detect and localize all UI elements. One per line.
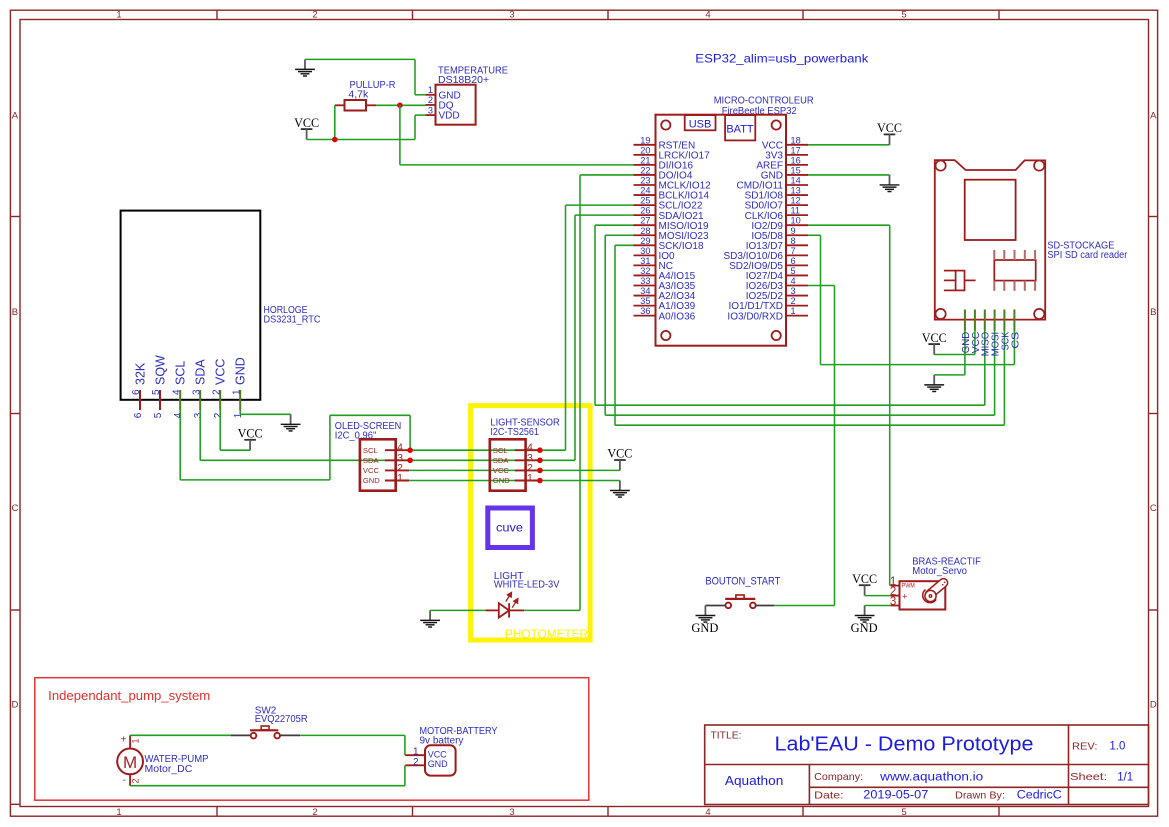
svg-text:cuve: cuve: [496, 522, 523, 534]
svg-text:GND: GND: [851, 620, 878, 635]
RTC clock U DS3231 (HORLOGE): [121, 211, 261, 400]
svg-text:Motor_Servo: Motor_Servo: [912, 565, 967, 577]
wire: [399, 105, 401, 165]
svg-text:1: 1: [428, 85, 433, 95]
push-button SW BOUTON_START: [725, 598, 755, 600]
svg-text:VCC: VCC: [238, 426, 263, 441]
wire OLED GND bus: [409, 480, 620, 482]
svg-text:5: 5: [901, 807, 906, 818]
micro-controller U FireBeetle ESP32: [656, 115, 787, 346]
wire pin4 IO26/D3 to button: [808, 285, 835, 287]
svg-text:21: 21: [640, 155, 650, 165]
svg-text:36: 36: [640, 306, 650, 316]
svg-text:BOUTON_START: BOUTON_START: [705, 576, 780, 588]
SD module pins: [964, 310, 966, 331]
svg-text:25: 25: [640, 196, 650, 206]
wire RTC SDA bus: [199, 410, 201, 460]
svg-text:18: 18: [791, 135, 801, 145]
svg-text:23: 23: [640, 176, 650, 186]
svg-text:9: 9: [791, 226, 796, 236]
LED D white-led-3v: [486, 609, 499, 611]
wire: [300, 734, 405, 736]
svg-text:DS3231_RTC: DS3231_RTC: [264, 314, 321, 326]
title block: [705, 725, 1149, 805]
wire: [430, 609, 486, 611]
junction LS row: [537, 468, 543, 474]
svg-text:34: 34: [640, 286, 650, 296]
svg-text:4: 4: [705, 807, 710, 818]
svg-text:VCC: VCC: [493, 466, 510, 475]
wire pin15 GND: [808, 174, 890, 176]
svg-text:BATT: BATT: [726, 123, 754, 135]
svg-text:SDA: SDA: [363, 456, 380, 465]
cuve box: [488, 508, 533, 548]
wire SD GND: [964, 330, 966, 375]
svg-text:VCC: VCC: [607, 446, 632, 461]
svg-text:1: 1: [116, 807, 121, 818]
svg-text:4: 4: [705, 10, 710, 21]
wire: [865, 595, 891, 597]
svg-text:VCC: VCC: [363, 466, 380, 475]
svg-text:CS: CS: [1009, 332, 1021, 349]
svg-text:1: 1: [116, 10, 121, 21]
wire: [774, 605, 834, 607]
svg-text:M: M: [123, 753, 137, 772]
junction LS row: [537, 447, 543, 453]
svg-text:32: 32: [640, 266, 650, 276]
ground (sensors): [619, 481, 621, 491]
junction (DQ node): [397, 103, 403, 109]
svg-text:1: 1: [527, 472, 533, 484]
svg-text:15: 15: [791, 165, 801, 175]
svg-text:C: C: [11, 503, 18, 514]
junction LS row: [537, 458, 543, 464]
wire: [130, 734, 231, 736]
svg-text:1: 1: [397, 472, 403, 484]
svg-text:-: -: [902, 603, 905, 614]
svg-text:D: D: [11, 699, 18, 710]
svg-text:Motor_DC: Motor_DC: [145, 763, 193, 775]
wire SD VCC: [974, 330, 976, 355]
svg-text:SDA: SDA: [493, 456, 510, 465]
ground (top-left, DS18B20 GND net): [304, 59, 306, 69]
svg-text:Sheet:: Sheet:: [1070, 771, 1107, 783]
svg-text:GND: GND: [691, 620, 718, 635]
wire pin9 IO5/D8 to SD CS: [808, 234, 821, 236]
svg-text:31: 31: [640, 256, 650, 266]
svg-text:PWM: PWM: [902, 583, 915, 590]
svg-text:B: B: [12, 307, 18, 318]
svg-text:11: 11: [791, 206, 801, 216]
svg-text:Date:: Date:: [814, 789, 844, 801]
svg-text:+: +: [121, 735, 127, 746]
svg-text:CedricC: CedricC: [1017, 790, 1062, 802]
wire: [414, 115, 416, 139]
svg-text:C: C: [1150, 503, 1157, 514]
svg-text:16: 16: [791, 155, 801, 165]
svg-text:+: +: [902, 591, 908, 602]
svg-text:GND: GND: [493, 476, 510, 485]
svg-text:3: 3: [509, 10, 514, 21]
wire: [305, 58, 415, 60]
wire: [415, 114, 425, 116]
svg-text:30: 30: [640, 246, 650, 256]
wire SCL bus: [410, 449, 565, 451]
SD card reader module (SD-STOCKAGE): [935, 160, 1045, 320]
svg-text:IO3/D0/RXD: IO3/D0/RXD: [727, 311, 783, 322]
svg-text:www.aquathon.io: www.aquathon.io: [879, 771, 983, 783]
svg-text:SDA: SDA: [194, 359, 208, 385]
svg-text:PHOTOMETER: PHOTOMETER: [505, 629, 588, 641]
svg-text:19: 19: [640, 135, 650, 145]
svg-text:2: 2: [428, 95, 433, 105]
svg-text:Independant_pump_system: Independant_pump_system: [48, 689, 210, 703]
svg-text:3: 3: [428, 105, 433, 115]
ground (LED): [429, 610, 431, 620]
svg-text:2: 2: [312, 807, 317, 818]
svg-text:USB: USB: [689, 118, 712, 130]
svg-text:3: 3: [193, 412, 204, 418]
svg-text:SQW: SQW: [154, 355, 168, 385]
svg-text:29: 29: [640, 236, 650, 246]
wire: [376, 104, 425, 106]
junction OLED SCL: [407, 447, 413, 453]
svg-text:VCC: VCC: [294, 115, 319, 130]
wire RTC GND: [240, 413, 290, 415]
ground (ESP32 GND): [889, 175, 891, 185]
junction: [332, 137, 338, 143]
wire RTC SCL: [179, 410, 181, 480]
wire DQ to pin21: [400, 164, 634, 166]
svg-text:8: 8: [791, 236, 796, 246]
svg-text:VCC: VCC: [922, 330, 947, 345]
ground (SD): [933, 375, 935, 385]
wire: [524, 609, 580, 611]
svg-text:26: 26: [640, 206, 650, 216]
svg-text:B: B: [1150, 307, 1156, 318]
svg-text:17: 17: [791, 145, 801, 155]
wire pin29 SCK/IO18: [615, 244, 634, 246]
svg-text:1: 1: [791, 306, 796, 316]
ground (servo) with GND label: [864, 606, 866, 616]
svg-text:Aquathon: Aquathon: [725, 774, 784, 788]
wire: [404, 765, 406, 785]
svg-text:5: 5: [901, 10, 906, 21]
wire pin25 SCL/IO22: [566, 204, 634, 206]
svg-text:6: 6: [133, 412, 144, 418]
wire pin18 VCC: [808, 144, 890, 146]
svg-text:WHITE-LED-3V: WHITE-LED-3V: [494, 580, 560, 591]
wire RTC VCC: [219, 410, 221, 450]
svg-text:TITLE:: TITLE:: [711, 730, 742, 742]
svg-text:5: 5: [791, 266, 796, 276]
water pump motor M (Motor_DC): [117, 749, 143, 775]
svg-text:3: 3: [509, 807, 514, 818]
svg-text:13: 13: [791, 186, 801, 196]
independent pump system group box: [35, 678, 589, 801]
svg-text:24: 24: [640, 186, 650, 196]
svg-text:12: 12: [791, 196, 801, 206]
svg-text:Lab'EAU - Demo Prototype: Lab'EAU - Demo Prototype: [775, 733, 1034, 755]
photometer group box: [471, 406, 590, 640]
wire SD CS: [1013, 330, 1015, 365]
wire SD MOSI: [994, 330, 996, 415]
svg-text:2019-05-07: 2019-05-07: [863, 790, 928, 802]
svg-text:SCL: SCL: [174, 361, 188, 385]
wire SD MISO: [984, 330, 986, 405]
svg-text:6: 6: [791, 256, 796, 266]
svg-text:4: 4: [173, 412, 184, 418]
svg-text:EVQ22705R: EVQ22705R: [255, 714, 308, 725]
svg-text:35: 35: [640, 296, 650, 306]
svg-text:5: 5: [153, 412, 164, 418]
wire: [334, 105, 336, 139]
svg-text:14: 14: [791, 176, 801, 186]
svg-text:33: 33: [640, 276, 650, 286]
svg-text:1/1: 1/1: [1117, 771, 1133, 783]
svg-text:27: 27: [640, 216, 650, 226]
svg-text:GND: GND: [363, 476, 380, 485]
servo motor M BRAS-REACTIF: [900, 581, 946, 609]
wire pin22 DO/IO4: [580, 174, 634, 176]
svg-text:3: 3: [890, 596, 896, 608]
svg-text:GND: GND: [428, 759, 448, 770]
svg-text:Company:: Company:: [814, 771, 863, 783]
svg-text:VCC: VCC: [877, 120, 902, 135]
wire: [307, 139, 415, 141]
wire pin27 MISO/IO19: [595, 224, 634, 226]
svg-text:Drawn By:: Drawn By:: [955, 789, 1005, 801]
svg-text:32K: 32K: [134, 362, 148, 385]
svg-text:MICRO-CONTROLEUR: MICRO-CONTROLEUR: [714, 95, 814, 106]
svg-text:REV:: REV:: [1072, 741, 1098, 753]
svg-text:2: 2: [213, 412, 224, 418]
svg-text:20: 20: [640, 145, 650, 155]
wire SD SCK: [1003, 330, 1005, 425]
svg-text:-: -: [123, 775, 126, 786]
svg-text:A: A: [12, 111, 19, 122]
svg-text:VCC: VCC: [214, 359, 228, 385]
wire: [865, 605, 891, 607]
svg-text:A0/IO36: A0/IO36: [659, 311, 696, 322]
wire: [414, 59, 416, 94]
svg-text:7: 7: [791, 246, 796, 256]
wire pin28 MOSI/IO23: [605, 234, 633, 236]
wire: [231, 734, 251, 736]
svg-text:A: A: [1150, 111, 1157, 122]
svg-text:D: D: [1150, 699, 1157, 710]
svg-text:SPI SD card reader: SPI SD card reader: [1047, 250, 1128, 261]
wire: [415, 94, 425, 96]
wire: [281, 734, 301, 736]
svg-text:VDD: VDD: [439, 111, 460, 122]
svg-text:10: 10: [791, 216, 801, 226]
svg-text:1: 1: [233, 412, 244, 418]
svg-text:SCL: SCL: [493, 446, 508, 455]
svg-text:2: 2: [413, 757, 419, 768]
svg-text:2: 2: [312, 10, 317, 21]
svg-text:2: 2: [791, 296, 796, 306]
wire pin10 IO2/D9 to servo: [808, 224, 890, 226]
junction LS row: [537, 478, 543, 484]
wire pin26 SDA/IO21: [575, 214, 634, 216]
wire OLED VCC bus: [409, 469, 620, 471]
svg-text:2: 2: [131, 778, 141, 783]
svg-text:ESP32_alim=usb_powerbank: ESP32_alim=usb_powerbank: [695, 52, 869, 66]
svg-text:1.0: 1.0: [1109, 741, 1125, 753]
svg-text:4: 4: [791, 276, 796, 286]
ground (RTC): [290, 414, 292, 424]
junction OLED SDA: [407, 458, 413, 464]
resistor R pullup 4,7k: [345, 100, 367, 111]
svg-text:VCC: VCC: [852, 571, 877, 586]
svg-text:22: 22: [640, 165, 650, 175]
svg-text:I2C-TS2561: I2C-TS2561: [490, 426, 539, 438]
ground (button) with GND label: [704, 606, 706, 616]
svg-text:1: 1: [131, 738, 141, 743]
svg-text:4,7k: 4,7k: [348, 89, 369, 101]
svg-text:28: 28: [640, 226, 650, 236]
svg-text:SCL: SCL: [363, 446, 378, 455]
svg-text:3: 3: [791, 286, 796, 296]
svg-text:GND: GND: [234, 357, 248, 385]
